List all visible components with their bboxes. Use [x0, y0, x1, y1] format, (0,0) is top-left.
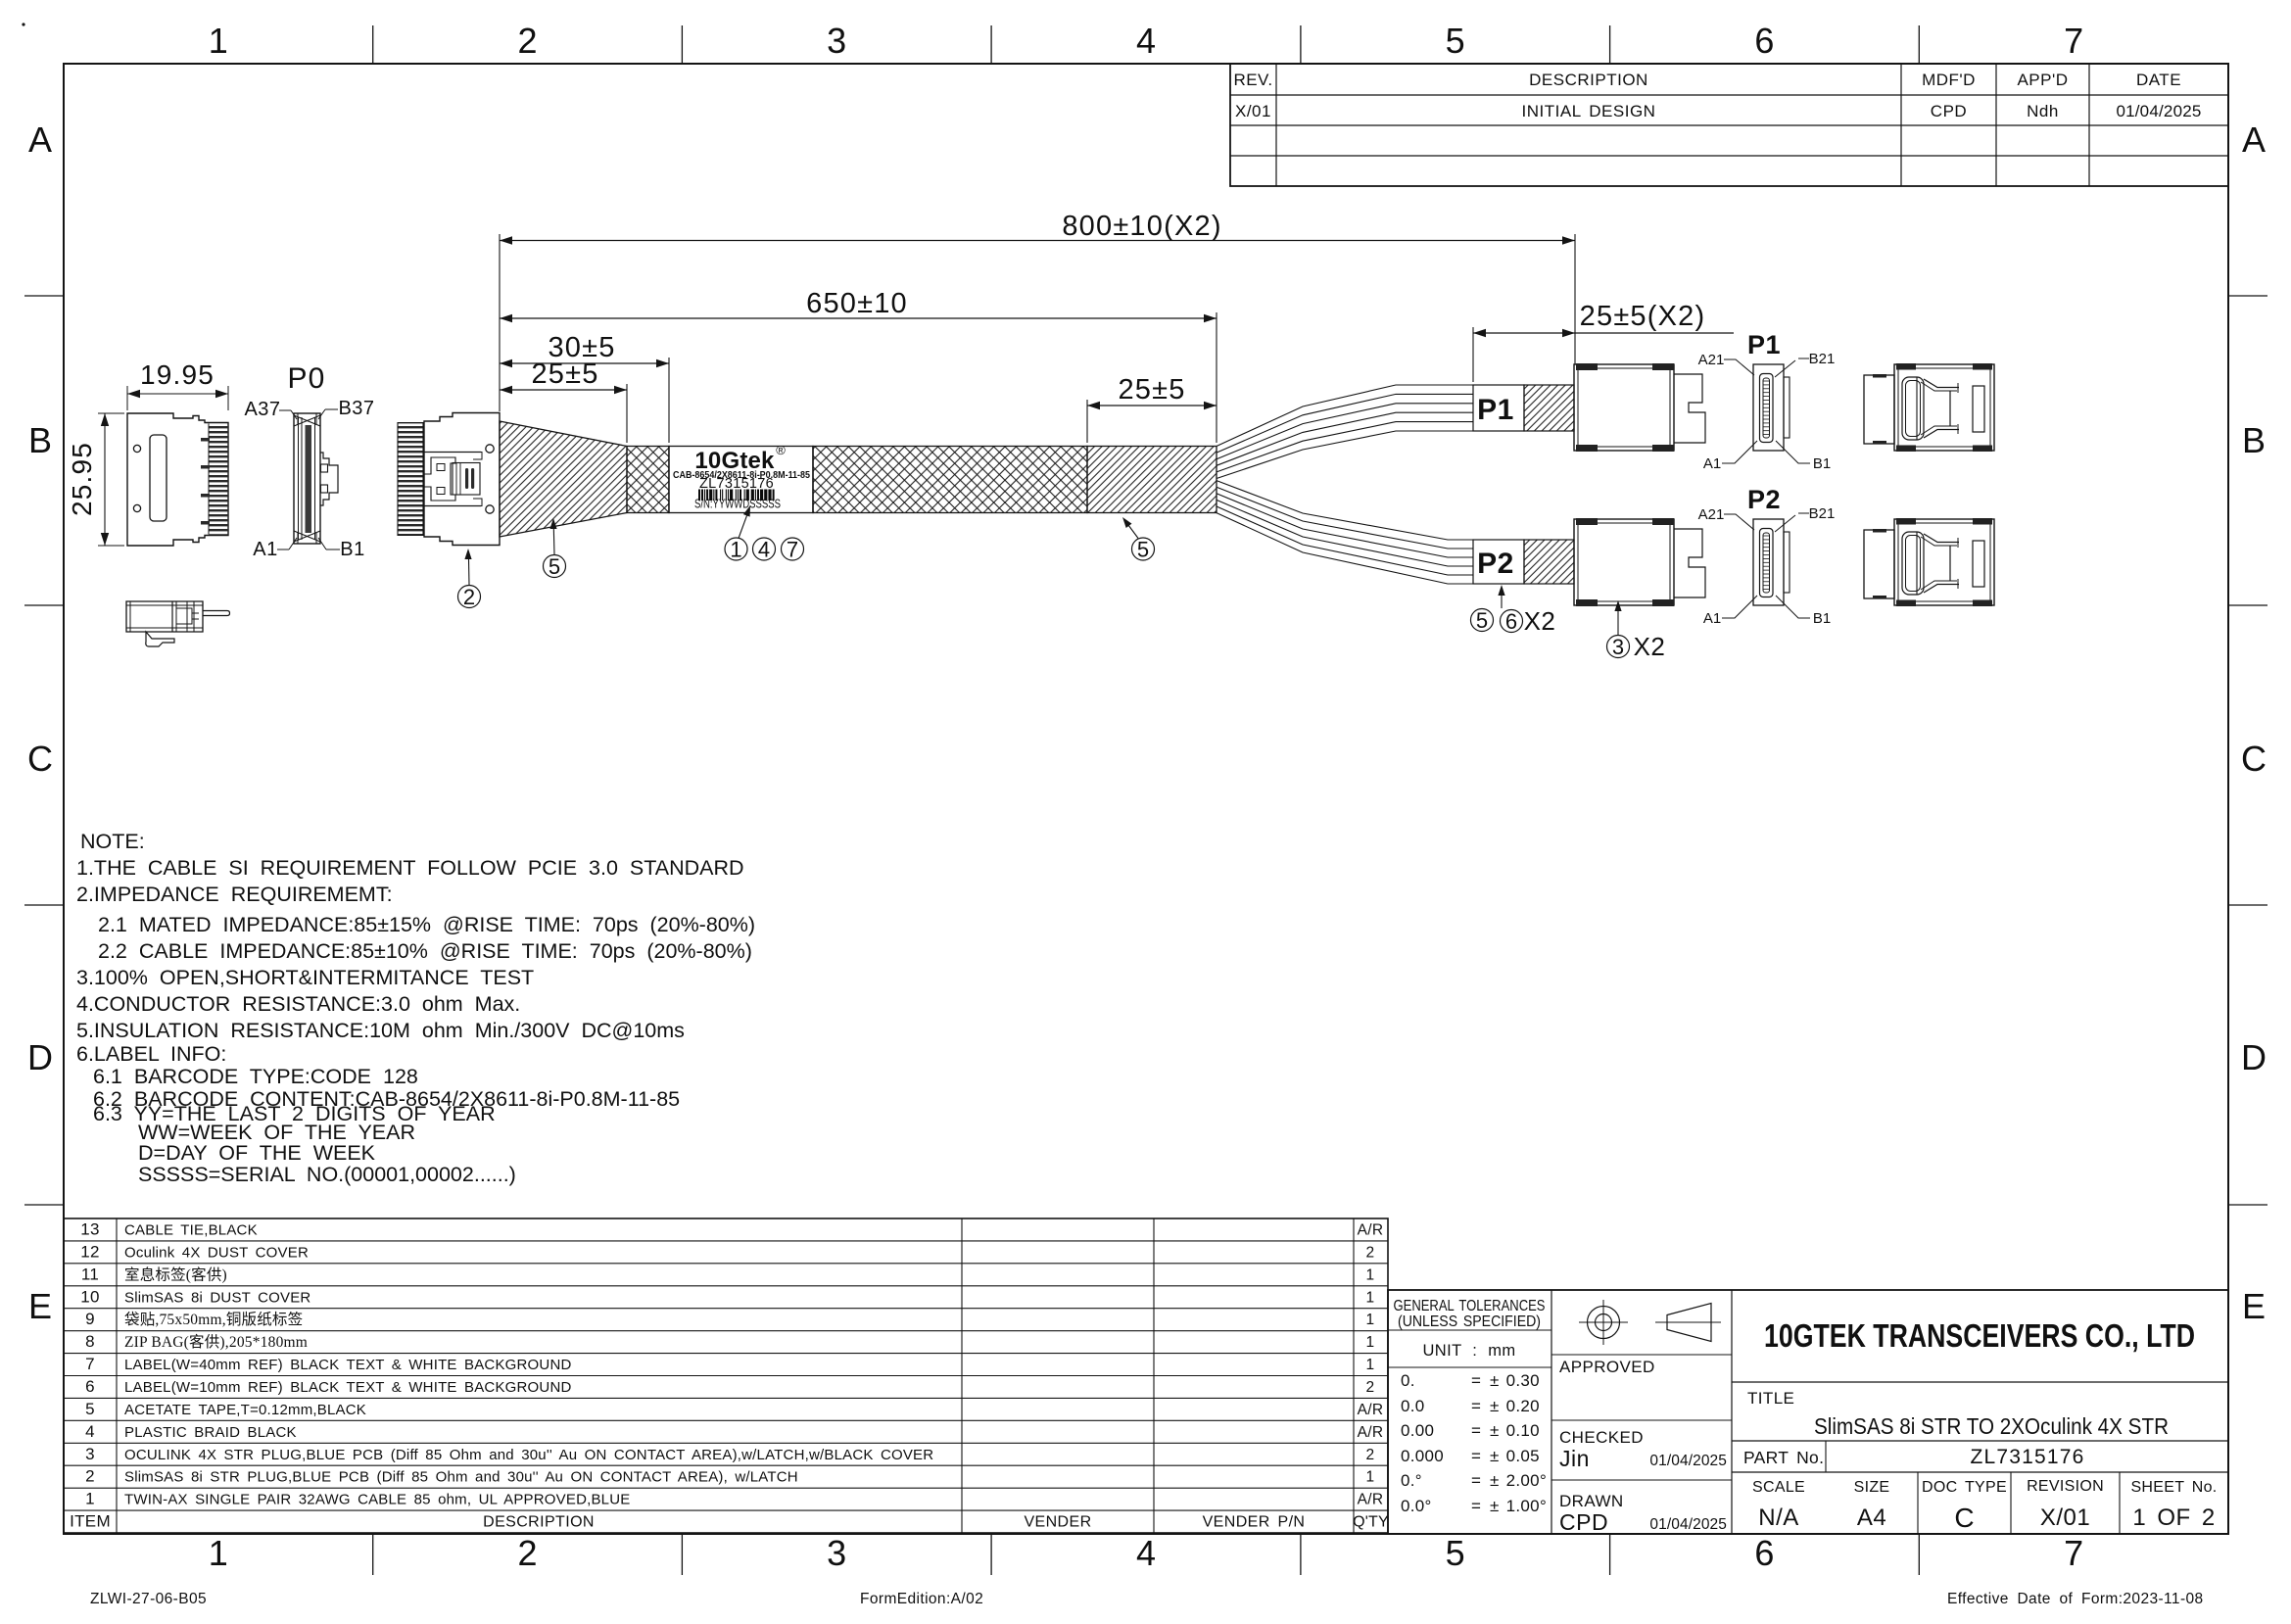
dimension 25±5 left	[500, 389, 627, 391]
svg-text:6: 6	[85, 1377, 95, 1396]
boot with latch notch P1	[1674, 374, 1705, 443]
plug screw hole lower	[486, 505, 494, 513]
latch slot P2	[1973, 541, 1984, 587]
svg-text:A: A	[28, 119, 52, 160]
svg-text:B1: B1	[1813, 455, 1831, 472]
svg-text:5: 5	[1476, 608, 1488, 633]
svg-text:12: 12	[80, 1242, 100, 1261]
svg-text:4.CONDUCTOR RESISTANCE:3.0 ohm: 4.CONDUCTOR RESISTANCE:3.0 ohm Max.	[76, 992, 520, 1016]
svg-text:± 0.05: ± 0.05	[1490, 1447, 1540, 1465]
zone column ticks top	[372, 25, 374, 64]
svg-text:Q'TY: Q'TY	[1353, 1514, 1389, 1531]
dimension 25±5 right (acetate tape)	[1087, 405, 1217, 406]
svg-text:5: 5	[1446, 1533, 1465, 1573]
svg-text:=: =	[1471, 1421, 1481, 1440]
registration dot top-left	[22, 23, 24, 25]
svg-text:NOTE:: NOTE:	[80, 830, 145, 853]
svg-text:ZL7315176: ZL7315176	[1970, 1446, 2084, 1468]
svg-text:0.: 0.	[1401, 1371, 1415, 1390]
approval rows	[1551, 1354, 1732, 1356]
svg-text:VENDER P/N: VENDER P/N	[1203, 1514, 1306, 1531]
latch teeth squares	[321, 464, 328, 472]
svg-text:2: 2	[517, 21, 537, 61]
svg-text:6: 6	[1754, 1533, 1774, 1573]
svg-text:A/R: A/R	[1358, 1492, 1384, 1508]
wire U5	[1217, 422, 1473, 472]
svg-text:7: 7	[2064, 21, 2083, 61]
svg-text:2: 2	[85, 1467, 95, 1486]
svg-text:X2: X2	[1634, 632, 1666, 661]
svg-text:25±5: 25±5	[1118, 374, 1185, 406]
svg-text:1: 1	[1366, 1289, 1375, 1306]
svg-text:25±5(X2): 25±5(X2)	[1580, 301, 1706, 332]
SlimSAS plug top profile view	[126, 601, 203, 632]
svg-text:ZLWI-27-06-B05: ZLWI-27-06-B05	[90, 1591, 207, 1607]
svg-text:=: =	[1471, 1371, 1481, 1390]
svg-text:B: B	[2242, 420, 2266, 460]
svg-text:PLASTIC BRAID BLACK: PLASTIC BRAID BLACK	[124, 1424, 297, 1441]
svg-text:DATE: DATE	[2136, 71, 2181, 89]
svg-text:2: 2	[1366, 1244, 1375, 1261]
acetate tape section right (item 5)	[1087, 447, 1217, 513]
svg-text:PART No.: PART No.	[1743, 1448, 1824, 1467]
svg-text:UNIT : mm: UNIT : mm	[1422, 1342, 1515, 1360]
svg-text:TITLE: TITLE	[1747, 1389, 1794, 1408]
product label (items 1,4,7)	[669, 447, 813, 513]
svg-text:D: D	[2241, 1037, 2267, 1077]
svg-text:A: A	[2242, 119, 2266, 160]
latch hook below	[146, 632, 174, 646]
svg-text:± 0.30: ± 0.30	[1490, 1371, 1540, 1390]
callout 5 6 X2 (tape + label at P-ends)	[1471, 609, 1494, 632]
extension line at x=1504 (P1 box left)	[1472, 327, 1474, 382]
title block	[1388, 1290, 2228, 1534]
P2 acetate tape wrap	[1524, 540, 1574, 584]
svg-text:0.0°: 0.0°	[1401, 1497, 1432, 1515]
svg-text:REV.: REV.	[1233, 71, 1272, 89]
svg-text:8: 8	[85, 1332, 95, 1351]
longer contact bars	[201, 438, 210, 442]
svg-text:P1: P1	[1747, 330, 1781, 359]
svg-text:®: ®	[776, 443, 786, 457]
tolerance box	[1388, 1329, 1551, 1331]
svg-text:2.IMPEDANCE REQUIREMEMT:: 2.IMPEDANCE REQUIREMEMT:	[76, 883, 393, 906]
svg-text:2: 2	[517, 1533, 537, 1573]
SlimSAS 8i STR plug (item 2) body	[424, 413, 500, 546]
svg-text:25±5: 25±5	[531, 358, 598, 390]
P1 front view slot	[1760, 374, 1774, 443]
P1 acetate tape wrap	[1524, 385, 1574, 431]
svg-text:VENDER: VENDER	[1024, 1514, 1091, 1531]
svg-text:5: 5	[549, 554, 560, 579]
svg-text:=: =	[1471, 1397, 1481, 1415]
svg-text:P0: P0	[287, 362, 325, 395]
svg-text:Oculink 4X DUST COVER: Oculink 4X DUST COVER	[124, 1244, 309, 1261]
svg-text:B1: B1	[1813, 610, 1831, 627]
svg-text:S/N:YYWWDSSSSS: S/N:YYWWDSSSSS	[694, 497, 781, 511]
company name	[1732, 1381, 2228, 1383]
bottom attribute row	[1917, 1472, 1919, 1534]
svg-text:4: 4	[1136, 1533, 1156, 1573]
braid section right (item 4)	[813, 447, 1087, 513]
svg-text:LABEL(W=40mm REF) BLACK TEXT &: LABEL(W=40mm REF) BLACK TEXT & WHITE BAC…	[124, 1357, 572, 1373]
revision table	[1230, 64, 2228, 186]
svg-text:01/04/2025: 01/04/2025	[2116, 102, 2201, 120]
P2 front view body	[1753, 519, 1784, 605]
latch slot P1	[1973, 386, 1984, 432]
P2 front view slot	[1760, 529, 1774, 597]
svg-text:ITEM: ITEM	[70, 1512, 111, 1531]
svg-text:INITIAL DESIGN: INITIAL DESIGN	[1522, 102, 1656, 120]
wire U1	[1217, 385, 1473, 447]
corner tabs side view P1	[1576, 363, 1598, 370]
svg-text:4: 4	[1136, 21, 1156, 61]
svg-text:SlimSAS 8i STR TO 2XOculink 4X: SlimSAS 8i STR TO 2XOculink 4X STR	[1814, 1413, 2169, 1439]
svg-text:ZIP BAG(客供),205*180mm: ZIP BAG(客供),205*180mm	[124, 1333, 308, 1351]
extension line at x=1608 (P1 hatch end / oculink face)	[1574, 234, 1576, 364]
svg-text:3: 3	[1612, 635, 1624, 659]
svg-text:Jin: Jin	[1559, 1446, 1590, 1471]
svg-text:5: 5	[85, 1400, 95, 1418]
guide hole upper	[133, 445, 140, 452]
first angle projection symbol	[1588, 1307, 1620, 1339]
svg-text:11: 11	[81, 1265, 99, 1283]
svg-text:室息标签(客供): 室息标签(客供)	[124, 1266, 227, 1283]
svg-text:A/R: A/R	[1358, 1222, 1384, 1239]
svg-text:7: 7	[787, 538, 798, 562]
svg-text:Effective Date of Form:2023-11: Effective Date of Form:2023-11-08	[1947, 1591, 2204, 1607]
oculink dust-cover/top view P2	[1864, 530, 1894, 598]
svg-text:5: 5	[1446, 21, 1465, 61]
wire U6	[1217, 431, 1473, 479]
svg-text:01/04/2025: 01/04/2025	[1649, 1453, 1727, 1469]
SlimSAS 8i connector front view	[127, 413, 228, 546]
svg-text:P1: P1	[1477, 394, 1514, 426]
svg-text:E: E	[28, 1286, 52, 1326]
svg-text:OCULINK 4X STR PLUG,BLUE PCB (: OCULINK 4X STR PLUG,BLUE PCB (Diff 85 Oh…	[124, 1447, 933, 1463]
svg-text:CPD: CPD	[1559, 1509, 1608, 1535]
svg-text:FormEdition:A/02: FormEdition:A/02	[860, 1591, 983, 1607]
svg-text:2.2 CABLE IMPEDANCE:85±10% @RI: 2.2 CABLE IMPEDANCE:85±10% @RISE TIME: 7…	[98, 939, 752, 963]
svg-text:SIZE: SIZE	[1854, 1479, 1890, 1496]
svg-text:DESCRIPTION: DESCRIPTION	[483, 1514, 595, 1531]
svg-text:N/A: N/A	[1758, 1505, 1799, 1531]
svg-text:0.000: 0.000	[1401, 1447, 1444, 1465]
svg-text:1: 1	[1366, 1334, 1375, 1351]
svg-text:B21: B21	[1809, 351, 1836, 367]
svg-text:P2: P2	[1747, 485, 1781, 514]
P0 bottom cross brace	[294, 531, 320, 544]
callout 5 (heat shrink)	[544, 555, 566, 578]
svg-text:6.LABEL INFO:: 6.LABEL INFO:	[76, 1042, 226, 1066]
wire U4	[1217, 412, 1473, 465]
svg-text:7: 7	[2064, 1533, 2083, 1573]
svg-text:6: 6	[1505, 609, 1517, 634]
guide hole lower	[133, 504, 140, 511]
wire L3	[1217, 494, 1473, 557]
svg-text:B37: B37	[338, 398, 374, 419]
svg-text:X/01: X/01	[2040, 1505, 2090, 1531]
svg-text:10GTEK TRANSCEIVERS CO., LTD: 10GTEK TRANSCEIVERS CO., LTD	[1764, 1317, 2195, 1354]
pull pin	[203, 611, 230, 616]
svg-text:DOC TYPE: DOC TYPE	[1922, 1479, 2007, 1496]
svg-text:3: 3	[85, 1445, 95, 1463]
extension line at x=683 (label left)	[668, 358, 670, 443]
svg-text:D: D	[27, 1037, 53, 1077]
svg-text:REVISION: REVISION	[2027, 1478, 2104, 1495]
svg-text:SCALE: SCALE	[1752, 1479, 1805, 1496]
zone row ticks right	[2228, 295, 2267, 297]
svg-text:± 0.10: ± 0.10	[1490, 1421, 1540, 1440]
wire L5	[1217, 506, 1473, 575]
svg-text:0.°: 0.°	[1401, 1471, 1422, 1490]
svg-text:3.100% OPEN,SHORT&INTERMITANCE: 3.100% OPEN,SHORT&INTERMITANCE TEST	[76, 966, 534, 989]
svg-text:19.95: 19.95	[140, 359, 215, 390]
svg-text:B1: B1	[340, 539, 364, 560]
svg-text:4: 4	[85, 1422, 95, 1441]
P1 wire label box (item 6)	[1473, 385, 1524, 431]
latch spring P1	[1902, 377, 1924, 440]
svg-text:01/04/2025: 01/04/2025	[1649, 1516, 1727, 1533]
dimension 25.95	[98, 412, 124, 414]
svg-text:A37: A37	[244, 399, 280, 420]
svg-text:APPROVED: APPROVED	[1559, 1358, 1655, 1376]
svg-text:3: 3	[827, 1533, 846, 1573]
label box border emphasis	[668, 447, 670, 513]
svg-text:A1: A1	[1703, 455, 1721, 472]
svg-text:CPD: CPD	[1931, 102, 1967, 120]
svg-text:5.INSULATION RESISTANCE:10M oh: 5.INSULATION RESISTANCE:10M ohm Min./300…	[76, 1019, 685, 1042]
svg-text:APP'D: APP'D	[2017, 71, 2068, 89]
contact teeth comb front view	[209, 424, 228, 535]
corner tabs side view P2	[1576, 518, 1598, 525]
BOM table	[64, 1218, 1388, 1533]
callout 2 (SlimSAS plug)	[458, 586, 481, 608]
svg-text:P2: P2	[1477, 548, 1514, 580]
extension line at x=510 (connector rear)	[499, 234, 501, 411]
svg-text:3: 3	[827, 21, 846, 61]
svg-text:25.95: 25.95	[67, 442, 97, 516]
svg-text:TWIN-AX SINGLE PAIR 32AWG CABL: TWIN-AX SINGLE PAIR 32AWG CABLE 85 ohm, …	[124, 1492, 630, 1508]
svg-text:0.0: 0.0	[1401, 1397, 1425, 1415]
svg-text:10: 10	[80, 1287, 100, 1306]
svg-text:1: 1	[1366, 1312, 1375, 1328]
svg-text:=: =	[1471, 1471, 1481, 1490]
svg-text:1 OF 2: 1 OF 2	[2132, 1505, 2215, 1531]
svg-text:1: 1	[85, 1490, 95, 1508]
svg-text:± 0.20: ± 0.20	[1490, 1397, 1540, 1415]
dimension 800±10(X2)	[500, 240, 1575, 242]
svg-text:1: 1	[209, 1533, 228, 1573]
extension line at x=1242 (cable end)	[1216, 312, 1217, 443]
boot with latch notch P2	[1674, 529, 1705, 597]
svg-text:=: =	[1471, 1447, 1481, 1465]
svg-text:A/R: A/R	[1358, 1424, 1384, 1441]
braid section left (item 4)	[627, 447, 669, 513]
heat shrink taper (item 5)	[500, 421, 627, 537]
P0 latch bump right side	[320, 453, 338, 505]
svg-text:A/R: A/R	[1358, 1402, 1384, 1418]
svg-text:± 2.00°: ± 2.00°	[1490, 1471, 1547, 1490]
wire U2	[1217, 394, 1473, 453]
svg-text:SSSSS=SERIAL NO.(00001,00002..: SSSSS=SERIAL NO.(00001,00002......)	[138, 1163, 516, 1186]
svg-text:C: C	[27, 739, 53, 779]
svg-text:LABEL(W=10mm REF) BLACK TEXT &: LABEL(W=10mm REF) BLACK TEXT & WHITE BAC…	[124, 1379, 572, 1396]
plug contact teeth	[398, 423, 423, 536]
svg-text:2: 2	[1366, 1447, 1375, 1463]
svg-text:2: 2	[1366, 1379, 1375, 1396]
callout 5 right (acetate tape)	[1132, 538, 1155, 560]
part no row	[1732, 1471, 2228, 1473]
plug cable termination	[453, 463, 480, 496]
svg-text:7: 7	[85, 1355, 95, 1373]
wire L6	[1217, 513, 1473, 584]
P0 top cross brace	[294, 413, 320, 426]
svg-text:5: 5	[1137, 538, 1149, 562]
svg-text:A21: A21	[1698, 506, 1725, 523]
label barcode	[698, 490, 700, 502]
svg-text:A1: A1	[253, 539, 277, 560]
svg-text:DRAWN: DRAWN	[1559, 1492, 1624, 1510]
latch spring P2	[1902, 532, 1924, 595]
plug screw hole upper	[486, 445, 494, 453]
svg-text:650±10: 650±10	[806, 288, 908, 319]
callout 3 X2 (oculink plugs)	[1607, 636, 1630, 658]
svg-text:SlimSAS 8i STR PLUG,BLUE PCB (: SlimSAS 8i STR PLUG,BLUE PCB (Diff 85 Oh…	[124, 1469, 798, 1486]
svg-text:4: 4	[758, 538, 770, 562]
svg-text:6.1 BARCODE TYPE:CODE 128: 6.1 BARCODE TYPE:CODE 128	[93, 1065, 418, 1088]
svg-text:1.THE CABLE SI REQUIREMENT FOL: 1.THE CABLE SI REQUIREMENT FOLLOW PCIE 3…	[76, 856, 744, 880]
svg-text:6: 6	[1754, 21, 1774, 61]
svg-text:CHECKED: CHECKED	[1559, 1428, 1644, 1447]
callout 4 (braid)	[753, 538, 776, 560]
plug inner latch detail	[424, 452, 481, 454]
extension line at x=1110 (tape start right)	[1086, 400, 1088, 443]
svg-text:D=DAY OF THE WEEK: D=DAY OF THE WEEK	[138, 1141, 376, 1165]
wire L4	[1217, 500, 1473, 566]
dimension 25±5(X2)	[1473, 332, 1575, 334]
svg-text:13: 13	[80, 1220, 100, 1239]
dimension 19.95	[126, 386, 128, 410]
callout 7 (label)	[782, 538, 804, 560]
profile latch details	[171, 601, 173, 632]
svg-text:800±10(X2): 800±10(X2)	[1062, 211, 1221, 242]
oculink dust-cover/top view P1	[1864, 375, 1894, 444]
svg-text:2.1 MATED IMPEDANCE:85±15% @RI: 2.1 MATED IMPEDANCE:85±15% @RISE TIME: 7…	[98, 913, 755, 936]
svg-text:1: 1	[730, 538, 741, 562]
P0 pcb edge	[306, 425, 312, 533]
svg-text:X2: X2	[1524, 606, 1556, 636]
dimension 30±5	[500, 362, 669, 364]
svg-text:GENERAL TOLERANCES: GENERAL TOLERANCES	[1394, 1298, 1546, 1314]
svg-text:± 1.00°: ± 1.00°	[1490, 1497, 1547, 1515]
extension line at x=640 (braid start)	[626, 384, 628, 443]
zone column ticks bottom	[372, 1534, 374, 1575]
svg-text:0.00: 0.00	[1401, 1421, 1434, 1440]
svg-text:MDF'D: MDF'D	[1922, 71, 1976, 89]
svg-text:C: C	[2241, 739, 2267, 779]
svg-text:SlimSAS 8i DUST COVER: SlimSAS 8i DUST COVER	[124, 1289, 310, 1306]
svg-text:C: C	[1954, 1503, 1974, 1533]
svg-text:B21: B21	[1809, 505, 1836, 522]
center slot	[150, 435, 167, 521]
svg-text:1: 1	[209, 21, 228, 61]
svg-text:(UNLESS SPECIFIED): (UNLESS SPECIFIED)	[1398, 1314, 1541, 1330]
P1 front view body	[1753, 364, 1784, 451]
svg-text:A1: A1	[1703, 610, 1721, 627]
svg-text:1: 1	[1366, 1266, 1375, 1283]
wire L1	[1217, 481, 1473, 540]
svg-text:袋贴,75x50mm,铜版纸标签: 袋贴,75x50mm,铜版纸标签	[124, 1311, 303, 1328]
svg-text:E: E	[2242, 1286, 2266, 1326]
dimension 650±10	[500, 317, 1217, 319]
zone row ticks left	[24, 295, 64, 297]
OCULINK 4X STR plug (item 3) side view P2	[1574, 519, 1674, 605]
P2 wire label box (item 6)	[1473, 540, 1524, 584]
svg-text:SHEET No.: SHEET No.	[2130, 1479, 2217, 1496]
wire L2	[1217, 487, 1473, 549]
svg-text:A4: A4	[1857, 1505, 1886, 1531]
P0 side view body	[294, 413, 320, 544]
svg-text:9: 9	[85, 1310, 95, 1328]
svg-text:1: 1	[1366, 1469, 1375, 1486]
svg-text:Ndh: Ndh	[2027, 102, 2059, 120]
svg-text:DESCRIPTION: DESCRIPTION	[1529, 71, 1648, 89]
svg-text:2: 2	[463, 585, 475, 609]
svg-text:ACETATE TAPE,T=0.12mm,BLACK: ACETATE TAPE,T=0.12mm,BLACK	[124, 1402, 366, 1418]
svg-text:X/01: X/01	[1235, 102, 1271, 120]
wire U3	[1217, 404, 1473, 459]
title row	[1732, 1440, 2228, 1442]
svg-text:=: =	[1471, 1497, 1481, 1515]
callout 1 (cable)	[725, 538, 747, 560]
svg-text:1: 1	[1366, 1357, 1375, 1373]
svg-text:CABLE TIE,BLACK: CABLE TIE,BLACK	[124, 1222, 258, 1239]
svg-text:A21: A21	[1698, 352, 1725, 368]
OCULINK 4X STR plug (item 3) side view P1	[1574, 364, 1674, 451]
svg-text:B: B	[28, 420, 52, 460]
